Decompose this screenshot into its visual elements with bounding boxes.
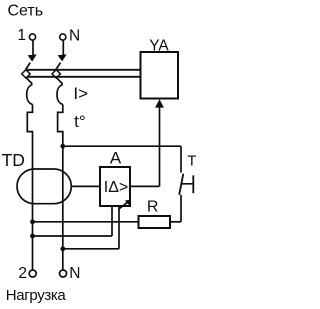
svg-text:N: N [69, 27, 80, 44]
svg-text:R: R [147, 199, 159, 216]
test button T [179, 174, 193, 195]
arrow pole N [58, 54, 67, 61]
svg-text:T: T [187, 153, 196, 170]
solenoid YA box [141, 52, 179, 99]
thermal release jog pole 1 + wire pole 1 [27, 105, 32, 271]
wire A right output to N pole [63, 248, 119, 250]
svg-text:IΔ>: IΔ> [104, 179, 128, 196]
wire left pole to resistor [33, 221, 139, 223]
electromagnetic release coil pole N [57, 85, 63, 105]
svg-text:I>: I> [73, 84, 88, 103]
junction dot test tap [60, 144, 65, 149]
amplifier block A [100, 167, 130, 206]
terminal N top [60, 34, 66, 40]
arrowhead into YA [155, 99, 164, 107]
svg-text:N: N [69, 265, 80, 282]
wire to test button [63, 145, 181, 147]
trip arrow of A block [119, 202, 128, 209]
wire A left output to left pole [33, 235, 113, 237]
svg-text:A: A [110, 149, 122, 168]
svg-text:t°: t° [74, 112, 86, 131]
trip wire from A block to YA [130, 185, 160, 187]
breaker contact pole N [52, 63, 63, 84]
svg-text:YA: YA [149, 37, 169, 54]
thermal release jog pole N + wire pole N [58, 105, 63, 271]
junction dot left pole / resistor line [30, 219, 35, 224]
differential transformer TD [17, 169, 71, 204]
svg-text:Нагрузка: Нагрузка [6, 287, 67, 304]
breaker contact pole 1 [22, 63, 33, 84]
electromagnetic release coil pole 1 [27, 85, 33, 105]
svg-text:TD: TD [2, 150, 25, 170]
svg-text:2: 2 [18, 265, 27, 282]
wire TD to A block [71, 185, 100, 187]
wire button to resistor [180, 195, 182, 222]
arrow pole 1 [28, 54, 37, 61]
wire stub pole 1 [32, 40, 34, 56]
terminal N bottom [60, 270, 67, 277]
svg-text:1: 1 [17, 27, 26, 44]
mechanical linkage double line [27, 69, 141, 71]
wire stub pole N [62, 40, 64, 56]
A block output wires [111, 206, 113, 236]
junction dot N pole / A output [60, 246, 65, 251]
svg-text:Сеть: Сеть [8, 2, 44, 19]
resistor R [139, 216, 171, 228]
junction dot left pole / A output [30, 234, 35, 239]
